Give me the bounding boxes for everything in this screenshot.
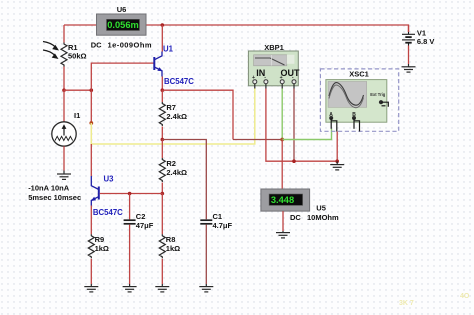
ground right net xyxy=(330,161,344,170)
svg-text:R8: R8 xyxy=(166,235,176,244)
svg-text:C1: C1 xyxy=(213,212,223,221)
svg-text:DC: DC xyxy=(91,41,102,50)
watermark bottom right xyxy=(399,293,470,307)
svg-text:1kΩ: 1kΩ xyxy=(95,244,109,253)
svg-text:2.4kΩ: 2.4kΩ xyxy=(166,112,187,121)
wire R2 bottom to node xyxy=(161,183,163,194)
ground below I1 xyxy=(57,171,71,180)
ground below C2 xyxy=(123,284,137,292)
svg-text:U1: U1 xyxy=(163,45,174,54)
XSC1 channel A terminal xyxy=(329,112,337,132)
wire R1 top xyxy=(63,25,65,43)
node junction R2/R8/base wire xyxy=(161,192,165,196)
wire green to scope A xyxy=(282,129,331,140)
svg-text:R2: R2 xyxy=(166,159,176,168)
wire U3 emitter down to R9 xyxy=(90,206,92,235)
wire top rail right from U6 right pin to V1 corner xyxy=(146,25,409,32)
svg-text:DC: DC xyxy=(290,213,301,222)
svg-text:0.056m: 0.056m xyxy=(107,20,139,30)
wire top rail left from R1 corner to U6 left pin xyxy=(64,24,97,26)
R1 light arrows xyxy=(43,42,59,60)
XBP1 terminals xyxy=(253,80,296,84)
wire R9 bottom xyxy=(90,259,92,284)
ground below C1 xyxy=(199,284,213,292)
wire scope A- to ground node xyxy=(336,132,338,162)
wire C2 top xyxy=(129,194,131,220)
capacitor C2 47uF xyxy=(124,220,136,224)
resistor R8 xyxy=(159,234,165,258)
node junction R7/R2/C1 xyxy=(161,138,165,142)
svg-text:BC547C: BC547C xyxy=(93,208,123,217)
wire emitter node right xyxy=(162,90,233,139)
transistor U3 BC547C (mirrored) xyxy=(91,176,99,206)
battery V1 xyxy=(402,25,415,64)
XSC1 channel B terminal xyxy=(352,112,360,132)
svg-text:3K 7: 3K 7 xyxy=(399,300,414,307)
svg-text:47μF: 47μF xyxy=(136,221,154,230)
node junction C2 tap xyxy=(128,192,132,196)
svg-text:XSC1: XSC1 xyxy=(349,69,369,78)
wire R8 bottom xyxy=(161,259,163,284)
svg-text:I1: I1 xyxy=(74,111,80,120)
capacitor C1 4.7uF xyxy=(200,220,212,224)
svg-text:U5: U5 xyxy=(316,203,326,212)
resistor R9 xyxy=(88,234,94,258)
U1 emitter arrow xyxy=(157,67,162,71)
wire yellow from node down and right to XBP1 IN+ xyxy=(91,88,255,144)
wire R8 top xyxy=(161,194,163,235)
current source I1 xyxy=(52,90,76,146)
svg-text:BC547C: BC547C xyxy=(164,77,194,86)
oscilloscope XSC1 body xyxy=(326,80,387,123)
node junction U1 emitter / R7 xyxy=(161,88,165,92)
svg-text:-10nA 10nA: -10nA 10nA xyxy=(28,184,70,193)
resistor R7 xyxy=(159,102,165,126)
wire node to base column xyxy=(64,89,91,91)
wire C2 bottom xyxy=(129,225,131,284)
svg-text:2.4kΩ: 2.4kΩ xyxy=(166,168,187,177)
resistor R1 50k photoresistor xyxy=(61,43,67,67)
svg-text:50kΩ: 50kΩ xyxy=(68,52,87,61)
node junction green/maroon/U5 xyxy=(280,138,284,142)
wire XBP1 OUT- maroon down xyxy=(293,89,295,162)
node junction ground net xyxy=(335,159,339,163)
wire U1 emitter to node xyxy=(161,77,163,91)
svg-text:C2: C2 xyxy=(136,212,146,221)
ground below R8 xyxy=(155,284,169,292)
bode plotter XBP1 xyxy=(248,51,298,86)
svg-text:U6: U6 xyxy=(117,5,127,14)
node junction yellow tap xyxy=(89,121,93,125)
resistor R2 xyxy=(159,158,165,182)
svg-text:6.8 V: 6.8 V xyxy=(417,37,435,46)
svg-text:Ext Trig: Ext Trig xyxy=(370,92,386,97)
svg-text:3.448: 3.448 xyxy=(271,195,294,205)
wire base column down to color-change node xyxy=(90,90,92,123)
wire U1 collector to rail xyxy=(161,25,163,52)
wire node down to R2 xyxy=(161,140,163,159)
svg-text:1kΩ: 1kΩ xyxy=(166,244,180,253)
ground below U5 xyxy=(276,231,290,238)
svg-text:R7: R7 xyxy=(166,103,176,112)
svg-text:R9: R9 xyxy=(95,235,105,244)
svg-text:5msec 10msec: 5msec 10msec xyxy=(28,193,81,202)
svg-text:XBP1: XBP1 xyxy=(264,43,284,52)
XSC1 ext trig terminal xyxy=(379,100,388,107)
U3 emitter arrow xyxy=(91,197,96,201)
wire U3 base right xyxy=(100,193,163,195)
wire R7 top stub xyxy=(161,90,163,102)
wire XBP1 IN- to ground rail xyxy=(266,89,337,162)
wire XBP1 OUT+ green down xyxy=(281,89,283,140)
transistor U1 BC547C xyxy=(154,52,162,77)
wire C1 bottom xyxy=(205,225,207,284)
ground below R9 xyxy=(84,284,98,292)
wire R7 bottom to node xyxy=(161,127,163,140)
wire I1 bottom xyxy=(63,146,65,170)
svg-text:1e-009Ohm: 1e-009Ohm xyxy=(108,41,153,50)
wire U3 collector column red xyxy=(90,144,92,176)
wire R1 bottom to node xyxy=(63,67,65,91)
node junction base column xyxy=(90,88,94,92)
ground below V1 xyxy=(402,64,416,72)
node junction R1/I1 xyxy=(62,88,66,92)
wire up and right to U1 base xyxy=(91,63,153,90)
node junction OUT-/ground rail xyxy=(292,159,296,163)
XBP1 pin stubs xyxy=(255,84,294,89)
multimeter U6 body xyxy=(97,14,147,35)
svg-text:U3: U3 xyxy=(104,175,115,184)
wire U5 bottom xyxy=(282,211,284,231)
svg-text:4O: 4O xyxy=(460,293,470,300)
wire maroon to green junction xyxy=(233,139,282,141)
XBP1 polarity marks xyxy=(252,75,294,81)
node junction rail/U1 collector xyxy=(161,23,165,27)
svg-text:OUT: OUT xyxy=(281,68,301,78)
voltmeter U5 body xyxy=(261,189,310,211)
wire maroon node to C1 column xyxy=(162,140,206,220)
oscilloscope XSC1 dashed frame xyxy=(320,69,398,131)
svg-text:4.7μF: 4.7μF xyxy=(213,221,233,230)
svg-text:10MOhm: 10MOhm xyxy=(307,213,339,222)
wire U5 feed red down xyxy=(281,140,283,190)
